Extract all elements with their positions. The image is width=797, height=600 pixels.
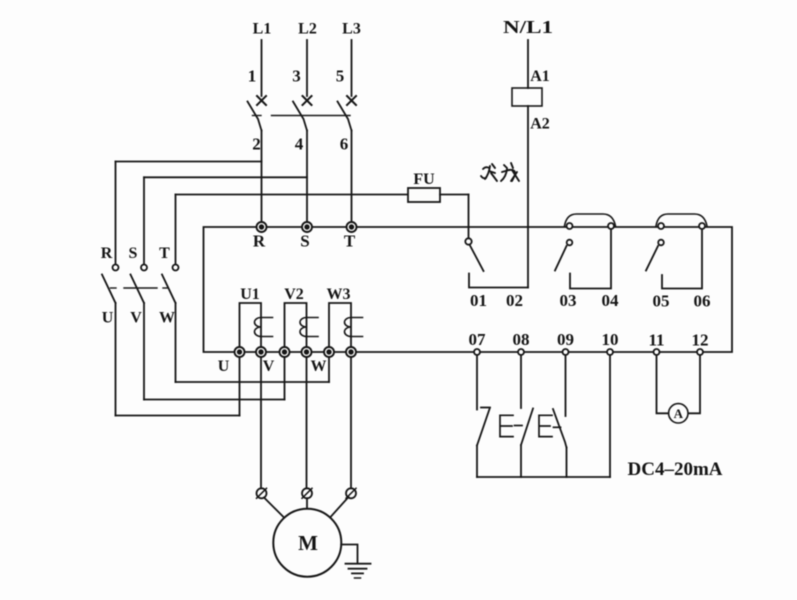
svg-text:02: 02	[506, 291, 523, 310]
svg-text:12: 12	[692, 331, 709, 350]
svg-text:A2: A2	[530, 116, 550, 133]
svg-text:03: 03	[560, 291, 577, 310]
svg-text:L3: L3	[342, 21, 361, 38]
svg-text:M: M	[298, 531, 318, 555]
svg-text:08: 08	[513, 330, 530, 349]
svg-text:U: U	[218, 358, 230, 375]
svg-text:L1: L1	[253, 21, 272, 38]
svg-text:05: 05	[653, 292, 670, 311]
svg-text:S: S	[300, 232, 309, 251]
svg-text:A1: A1	[530, 68, 550, 85]
svg-text:T: T	[159, 245, 170, 262]
svg-text:V2: V2	[284, 286, 304, 303]
svg-text:R: R	[101, 245, 113, 262]
svg-text:R: R	[253, 232, 266, 251]
svg-text:FU: FU	[413, 171, 435, 188]
svg-text:W3: W3	[327, 286, 351, 303]
svg-text:5: 5	[336, 67, 345, 86]
svg-text:N/L1: N/L1	[503, 17, 553, 37]
svg-text:S: S	[129, 245, 138, 262]
svg-text:T: T	[344, 232, 356, 251]
svg-text:V: V	[130, 310, 142, 327]
svg-text:07: 07	[469, 330, 487, 349]
svg-text:L2: L2	[298, 21, 317, 38]
svg-text:06: 06	[694, 292, 711, 311]
svg-text:A: A	[674, 406, 684, 421]
svg-text:01: 01	[470, 291, 487, 310]
svg-text:W: W	[311, 358, 327, 375]
svg-text:04: 04	[602, 291, 620, 310]
svg-text:U1: U1	[240, 286, 260, 303]
svg-text:DC4–20mA: DC4–20mA	[628, 459, 723, 480]
svg-text:U: U	[102, 310, 114, 327]
svg-text:3: 3	[292, 67, 301, 86]
svg-text:09: 09	[557, 330, 574, 349]
svg-text:10: 10	[602, 330, 619, 349]
svg-text:1: 1	[248, 67, 257, 86]
svg-text:4: 4	[295, 134, 304, 153]
svg-text:W: W	[159, 310, 175, 327]
svg-text:2: 2	[252, 134, 261, 153]
svg-text:6: 6	[340, 134, 349, 153]
svg-text:V: V	[263, 358, 275, 375]
svg-text:11: 11	[648, 331, 664, 350]
